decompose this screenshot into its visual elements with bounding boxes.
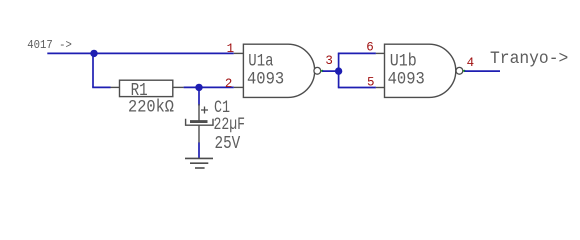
pin 1 lead of U1a xyxy=(234,52,244,54)
nand gate U1a body xyxy=(243,44,314,97)
capacitor C1 top plate xyxy=(190,120,208,123)
svg-text:U1a: U1a xyxy=(248,52,273,72)
wire node A down to R1 row xyxy=(92,53,94,87)
svg-text:2: 2 xyxy=(225,76,233,91)
svg-text:3: 3 xyxy=(325,53,333,68)
resistor R1 left lead xyxy=(111,86,120,88)
svg-text:22µF: 22µF xyxy=(214,115,246,135)
svg-text:U1b: U1b xyxy=(390,52,417,72)
junction dot at node A xyxy=(90,50,97,57)
svg-text:25V: 25V xyxy=(215,134,241,154)
wire to R1 left xyxy=(92,86,110,88)
wire net from 4017 to pin 1 xyxy=(47,52,234,54)
wire node C vertical split xyxy=(338,53,340,87)
wire node C to pin 5 xyxy=(338,87,376,89)
svg-text:220kΩ: 220kΩ xyxy=(128,98,174,118)
svg-text:6: 6 xyxy=(366,40,374,55)
svg-text:5: 5 xyxy=(367,75,375,90)
resistor R1 body xyxy=(120,80,173,96)
capacitor C1 plus sign xyxy=(201,109,208,111)
wire C1 to ground xyxy=(198,143,200,159)
svg-text:4093: 4093 xyxy=(247,70,284,90)
svg-text:4093: 4093 xyxy=(388,70,425,90)
wire U1b output to Tranyo xyxy=(464,70,500,72)
resistor R1 right lead xyxy=(173,86,184,88)
wire R1 to node B xyxy=(184,86,234,88)
wire node B down to C1 xyxy=(198,87,200,105)
capacitor C1 bottom pin xyxy=(198,126,200,144)
pin 2 lead of U1a xyxy=(234,86,244,88)
capacitor C1 top pin xyxy=(198,104,200,121)
svg-text:1: 1 xyxy=(227,41,235,56)
capacitor C1 bottom plate bracket xyxy=(186,119,213,125)
pin 6 lead of U1b xyxy=(376,52,385,54)
svg-text:4017 ->: 4017 -> xyxy=(27,39,72,52)
green pin junction at U1b output xyxy=(463,70,465,72)
nand gate U1b output bubble xyxy=(456,67,463,74)
svg-text:Tranyo->: Tranyo-> xyxy=(490,50,568,69)
ground symbol xyxy=(185,158,213,168)
wire U1a output to node C xyxy=(322,70,338,72)
wire node C to pin 6 xyxy=(338,52,376,54)
junction dot node C xyxy=(335,67,342,74)
svg-text:4: 4 xyxy=(467,55,475,70)
green pin junction at U1a output xyxy=(321,70,323,72)
nand gate U1b body xyxy=(385,44,456,97)
pin 5 lead of U1b xyxy=(376,87,385,89)
junction dot node B xyxy=(195,84,202,91)
nand gate U1a output bubble xyxy=(314,67,321,74)
